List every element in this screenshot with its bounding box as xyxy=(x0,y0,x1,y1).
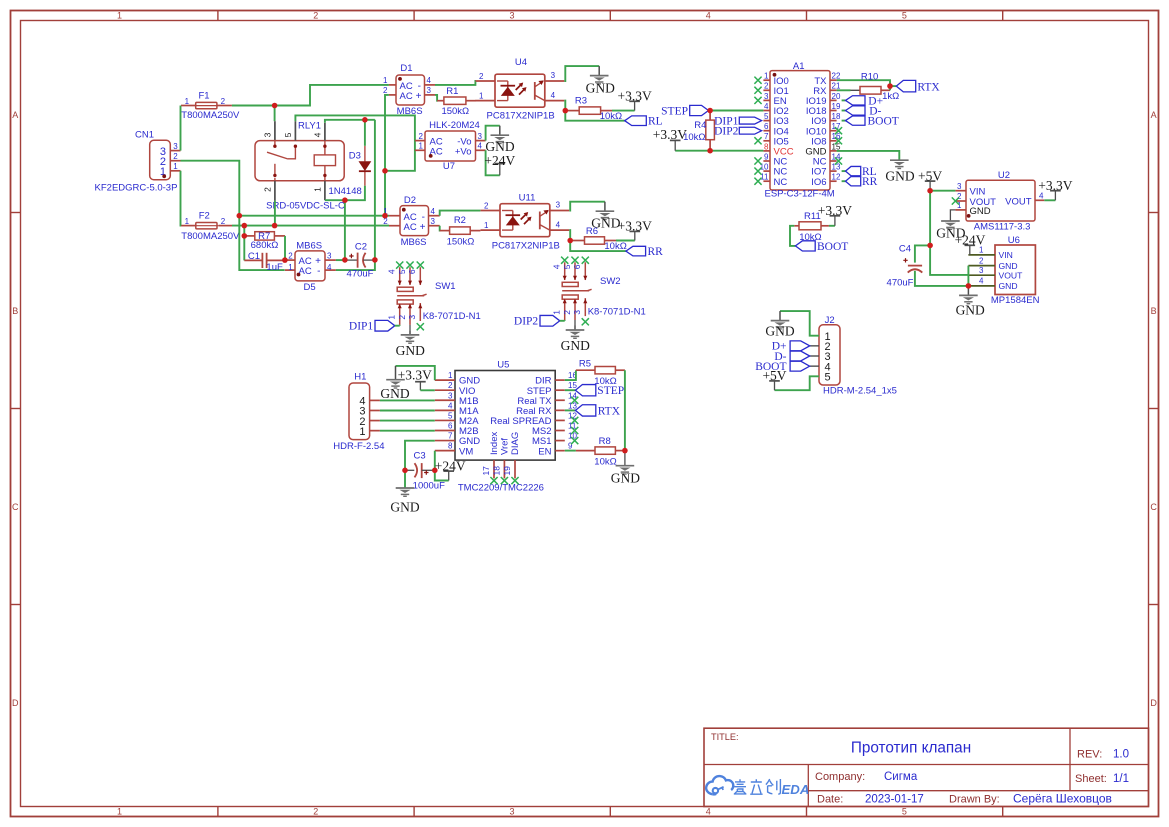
svg-text:PC817X2NIP1B: PC817X2NIP1B xyxy=(492,240,560,251)
svg-text:HDR-M-2.54_1x5: HDR-M-2.54_1x5 xyxy=(823,386,897,397)
svg-text:3: 3 xyxy=(478,132,483,141)
ground at U7 -Vo xyxy=(491,126,510,144)
svg-text:8: 8 xyxy=(448,442,453,451)
svg-text:19: 19 xyxy=(502,466,512,476)
svg-text:+24V: +24V xyxy=(955,233,986,248)
regulator U6 MP1584EN xyxy=(995,245,1035,295)
wire F1 to junction and D1 pin1 xyxy=(232,85,389,106)
svg-text:U6: U6 xyxy=(1008,235,1020,246)
wire H1.3 to U5 M1A xyxy=(380,410,435,412)
svg-text:Company:: Company: xyxy=(815,771,865,783)
junction C4 branch xyxy=(927,243,933,249)
svg-text:470uF: 470uF xyxy=(887,277,914,288)
wire A1 GND pin15 to ground xyxy=(837,151,900,160)
wire D3 cathode to coil+ node xyxy=(345,186,365,200)
svg-text:5: 5 xyxy=(283,132,293,137)
svg-text:GND: GND xyxy=(970,206,991,217)
svg-text:EDA: EDA xyxy=(782,782,810,797)
svg-text:PC817X2NIP1B: PC817X2NIP1B xyxy=(487,110,555,121)
svg-text:R6: R6 xyxy=(586,226,598,237)
no-connect marks U5 right pins xyxy=(571,397,578,404)
wire U7.4 to +24V xyxy=(486,150,500,175)
svg-text:D5: D5 xyxy=(304,282,316,293)
svg-text:SW1: SW1 xyxy=(435,281,456,292)
svg-text:SRD-05VDC-SL-C: SRD-05VDC-SL-C xyxy=(266,201,345,212)
svg-text:A1: A1 xyxy=(793,61,805,72)
svg-text:20: 20 xyxy=(832,92,841,101)
junction R6 tap xyxy=(567,238,573,244)
wire CN1.1 down to F2 xyxy=(180,171,183,226)
svg-text:2: 2 xyxy=(562,310,572,315)
svg-text:2: 2 xyxy=(448,381,453,390)
wire AC2 down through R7 to C1 xyxy=(243,226,245,261)
net flag DIP2 at A1.IO4 xyxy=(739,127,761,134)
svg-text:GND: GND xyxy=(396,343,425,358)
svg-text:B: B xyxy=(1151,306,1157,316)
connector CN1 xyxy=(150,140,171,179)
svg-text:D: D xyxy=(1150,698,1157,708)
wire U7.3 to GND xyxy=(486,126,500,141)
net flag DIP1 at A1.IO3 xyxy=(739,117,761,124)
wire SW2 pin1 to flag xyxy=(560,320,565,322)
no-connect marks A1 left pins xyxy=(754,77,761,84)
power flag +5V at J2 xyxy=(769,381,780,390)
svg-text:GND: GND xyxy=(390,499,419,514)
svg-text:GND: GND xyxy=(586,80,615,95)
svg-text:2023-01-17: 2023-01-17 xyxy=(865,794,924,806)
svg-text:3: 3 xyxy=(509,807,514,817)
svg-text:AMS1117-3.3: AMS1117-3.3 xyxy=(974,222,1031,233)
wire R11 left down to BOOT flag xyxy=(790,226,795,246)
svg-text:2: 2 xyxy=(419,132,424,141)
ground at SW1 xyxy=(401,330,420,343)
power flag +24V at U6 VIN xyxy=(965,245,976,255)
optocoupler U11 PC817X2NIP1B xyxy=(481,204,570,237)
svg-text:K8-7071D-N1: K8-7071D-N1 xyxy=(423,311,481,322)
svg-text:2: 2 xyxy=(221,97,226,106)
svg-text:TITLE:: TITLE: xyxy=(711,732,739,742)
svg-text:4: 4 xyxy=(448,401,453,410)
ground at J2 pin1 xyxy=(771,311,790,329)
svg-text:MP1584EN: MP1584EN xyxy=(991,295,1040,306)
svg-text:ESP-C3-12F-4M: ESP-C3-12F-4M xyxy=(764,188,834,199)
wire STEP to A1 pin4 xyxy=(709,110,764,112)
relay RLY1 SRD-05VDC-SL-C xyxy=(255,141,344,181)
svg-text:U2: U2 xyxy=(998,170,1010,181)
svg-text:U7: U7 xyxy=(443,161,455,172)
bridge rectifier D5 MB6S xyxy=(295,251,325,281)
JLC EDA logo cloud xyxy=(706,776,733,794)
svg-text:+5V: +5V xyxy=(918,168,942,183)
power flag +3.3V at A1 VCC xyxy=(670,140,681,150)
net flag STEP at A1.IO2 xyxy=(690,105,709,115)
svg-text:A: A xyxy=(1151,110,1157,120)
svg-text:21: 21 xyxy=(832,82,841,91)
ground at C3 xyxy=(396,488,415,496)
svg-text:1kΩ: 1kΩ xyxy=(882,91,899,102)
svg-text:17: 17 xyxy=(481,466,491,476)
capacitor C4 470uF xyxy=(915,245,930,262)
svg-text:DIAG: DIAG xyxy=(510,432,521,455)
junction U7 branch on AC1 vertical xyxy=(382,168,388,174)
svg-text:7: 7 xyxy=(764,132,769,141)
svg-text:R2: R2 xyxy=(454,215,466,226)
net flag D- at J2 xyxy=(790,351,810,361)
power flag +24V at U5 VM xyxy=(443,471,454,480)
power flag +24V at U7 xyxy=(495,164,506,176)
svg-text:2: 2 xyxy=(479,72,484,81)
svg-text:R4: R4 xyxy=(694,120,706,131)
junction C2 positive xyxy=(342,257,348,263)
net flag RR xyxy=(626,246,646,256)
wire SW1 pin1 to flag xyxy=(395,325,400,327)
svg-text:VOUT: VOUT xyxy=(999,270,1024,280)
svg-text:1: 1 xyxy=(552,310,562,315)
junction R7 left xyxy=(242,233,248,239)
resistor R10 1k xyxy=(860,87,881,95)
svg-text:GND: GND xyxy=(885,168,914,183)
bridge rectifier D2 MB6S xyxy=(400,206,429,236)
connector J2 HDR-M-2.54_1x5 xyxy=(819,325,840,385)
svg-text:1: 1 xyxy=(313,187,323,192)
wire U5 GND pin7 to C3 xyxy=(405,441,435,471)
svg-text:1: 1 xyxy=(359,426,365,438)
resistor R11 10k xyxy=(794,225,799,227)
svg-text:1: 1 xyxy=(419,142,424,151)
svg-text:1N4148: 1N4148 xyxy=(329,186,362,197)
no-connect marks U5 bottom pins xyxy=(490,477,497,484)
wire U5 VM down to +24V xyxy=(435,451,449,481)
svg-text:3: 3 xyxy=(572,310,582,315)
svg-text:3: 3 xyxy=(556,201,561,210)
svg-text:RLY1: RLY1 xyxy=(298,121,321,132)
title block outline xyxy=(704,728,1149,806)
svg-text:D3: D3 xyxy=(349,150,361,161)
svg-text:DIP2: DIP2 xyxy=(714,125,739,137)
wire H1.2 to U5 M2A xyxy=(380,420,435,422)
svg-text:3: 3 xyxy=(173,142,178,151)
svg-text:2: 2 xyxy=(764,82,769,91)
svg-text:5: 5 xyxy=(902,807,907,817)
wire H1.1 to U5 M2B xyxy=(380,430,435,432)
wire D2.4 to U11 pin2 xyxy=(440,211,481,216)
power flag +3.3V at R11 xyxy=(830,216,841,226)
wire U5 GND pin1 to ground xyxy=(396,366,435,380)
wire A1 TX to RTX xyxy=(837,80,890,86)
switch SW2 K8-7071D-N1 xyxy=(562,262,591,320)
wire CN1.3 to F1 xyxy=(180,106,182,151)
svg-text:+3.3V: +3.3V xyxy=(398,368,432,383)
svg-text:2: 2 xyxy=(288,251,293,260)
ground at SW2 xyxy=(566,326,585,339)
svg-text:AC: AC xyxy=(404,222,417,233)
wire D5.4 to C2- xyxy=(336,260,375,270)
svg-text:STEP: STEP xyxy=(661,105,688,117)
wire J2 pin5 to +5V xyxy=(775,376,820,390)
power flag +3.3V at R3 xyxy=(629,101,640,110)
svg-text:2: 2 xyxy=(957,192,962,201)
svg-text:RR: RR xyxy=(648,246,664,258)
svg-text:AC: AC xyxy=(400,91,413,102)
fuse F2 xyxy=(181,225,232,227)
svg-text:6: 6 xyxy=(572,264,582,269)
svg-text:4: 4 xyxy=(764,102,769,111)
net flag DIP2 xyxy=(540,315,560,326)
svg-text:2: 2 xyxy=(221,217,226,226)
svg-text:Drawn By:: Drawn By: xyxy=(949,794,1000,806)
svg-text:4: 4 xyxy=(387,269,397,274)
wire R7 right down to C1 right xyxy=(284,236,286,261)
connector H1 HDR-F-2.54 xyxy=(349,383,370,440)
svg-text:150kΩ: 150kΩ xyxy=(447,236,475,247)
wire D2.3 jog to R2 xyxy=(439,226,442,231)
svg-text:1: 1 xyxy=(764,72,769,81)
resistor R3 10k xyxy=(565,110,579,112)
svg-text:MB6S: MB6S xyxy=(401,237,427,248)
svg-text:2: 2 xyxy=(313,807,318,817)
wire A1 RX to R10 xyxy=(837,89,851,91)
svg-text:MB6S: MB6S xyxy=(397,106,423,117)
svg-text:H1: H1 xyxy=(354,372,366,383)
svg-text:BOOT: BOOT xyxy=(868,116,899,128)
svg-text:5: 5 xyxy=(448,411,453,420)
ground at R8 xyxy=(616,466,635,474)
resistor R5 10k xyxy=(576,369,595,371)
svg-text:2: 2 xyxy=(979,256,984,265)
stepper driver U5 TMC2209/TMC2226 xyxy=(455,371,555,461)
junction C3 right xyxy=(432,468,438,474)
wire D1.4 to U4 pin2 xyxy=(435,81,476,85)
svg-text:+3.3V: +3.3V xyxy=(617,89,651,104)
svg-text:GND: GND xyxy=(999,261,1018,271)
svg-text:GND: GND xyxy=(611,470,640,485)
svg-text:EN: EN xyxy=(538,446,551,457)
svg-text:KF2EDGRC-5.0-3P: KF2EDGRC-5.0-3P xyxy=(95,182,178,193)
svg-text:F2: F2 xyxy=(199,211,210,222)
wire H1.4 to U5 M1B xyxy=(380,399,435,401)
wire D5.3 to C2+ xyxy=(336,259,345,261)
svg-text:+24V: +24V xyxy=(484,153,515,168)
JLC EDA logo CJK text li xyxy=(750,779,762,794)
svg-text:4: 4 xyxy=(556,220,561,229)
svg-text:7: 7 xyxy=(448,432,453,441)
svg-text:IO6: IO6 xyxy=(811,177,826,188)
junction +5V node xyxy=(927,188,933,194)
svg-text:1: 1 xyxy=(383,76,388,85)
resistor R4 10k xyxy=(709,111,711,121)
svg-text:NC: NC xyxy=(774,177,788,188)
svg-text:5: 5 xyxy=(902,11,907,21)
svg-text:D2: D2 xyxy=(404,195,416,206)
junction R8 right xyxy=(622,448,628,454)
svg-text:3: 3 xyxy=(957,182,962,191)
svg-text:+Vo: +Vo xyxy=(455,146,472,157)
svg-text:1: 1 xyxy=(387,315,397,320)
svg-text:10kΩ: 10kΩ xyxy=(600,111,622,122)
svg-text:T800MA250V: T800MA250V xyxy=(181,110,240,121)
wire U5 EN to R8 xyxy=(565,450,576,452)
svg-text:C: C xyxy=(1150,502,1157,512)
junction C3 left xyxy=(402,468,408,474)
svg-text:2: 2 xyxy=(383,86,388,95)
svg-text:1000uF: 1000uF xyxy=(413,480,445,491)
wire U2 VOUT to +3.3V xyxy=(1044,199,1055,201)
junction coil+ / D3 cathode xyxy=(342,197,348,203)
svg-text:K8-7071D-N1: K8-7071D-N1 xyxy=(588,306,646,317)
wire R10 to RTX junction xyxy=(889,86,891,90)
svg-text:+3.3V: +3.3V xyxy=(818,203,852,218)
svg-text:4: 4 xyxy=(327,263,332,272)
resistor R2 150k xyxy=(440,230,450,232)
capacitor C1 1uF xyxy=(244,259,262,261)
svg-text:3: 3 xyxy=(263,132,273,137)
svg-text:3: 3 xyxy=(427,86,432,95)
wire RLY1.4 up and right to D3 anode xyxy=(325,120,375,123)
svg-text:1: 1 xyxy=(117,11,122,21)
svg-text:DIP1: DIP1 xyxy=(349,321,374,333)
resistor R6 10k xyxy=(570,240,584,242)
svg-text:Сигма: Сигма xyxy=(884,771,918,783)
svg-text:2: 2 xyxy=(263,187,273,192)
svg-text:5: 5 xyxy=(764,112,769,121)
svg-text:3: 3 xyxy=(979,266,984,275)
svg-text:AC: AC xyxy=(299,266,312,277)
svg-text:B: B xyxy=(12,306,18,316)
svg-text:5: 5 xyxy=(825,372,831,384)
svg-text:4: 4 xyxy=(431,207,436,216)
svg-text:REV:: REV: xyxy=(1077,749,1102,761)
diode D3 1N4148 xyxy=(364,146,366,186)
net flag D+ at A1.IO19 xyxy=(842,99,846,101)
svg-text:T800MA250V: T800MA250V xyxy=(181,231,240,242)
svg-text:2: 2 xyxy=(484,201,489,210)
svg-text:1: 1 xyxy=(484,221,489,230)
resistor R7 680k xyxy=(244,235,255,237)
svg-text:R3: R3 xyxy=(575,95,587,106)
svg-text:4: 4 xyxy=(551,91,556,100)
svg-text:GND: GND xyxy=(561,338,590,353)
junction AC2 relay pin2 branch xyxy=(272,223,278,229)
svg-text:3: 3 xyxy=(327,251,332,260)
junction C2 negative xyxy=(372,257,378,263)
svg-text:Серёга Шеховцов: Серёга Шеховцов xyxy=(1013,792,1112,806)
svg-text:1: 1 xyxy=(185,217,190,226)
svg-text:R10: R10 xyxy=(861,71,878,82)
junction snubber to D5.2 xyxy=(282,257,288,263)
wire D3 anode lead xyxy=(364,120,366,146)
svg-text:+5V: +5V xyxy=(762,368,786,383)
svg-text:+3.3V: +3.3V xyxy=(1038,178,1072,193)
svg-text:3: 3 xyxy=(551,71,556,80)
capacitor C2 470uF xyxy=(345,259,358,261)
svg-text:HDR-F-2.54: HDR-F-2.54 xyxy=(333,441,384,452)
ground at U6 xyxy=(959,286,978,304)
net flag RL at A1.IO7 xyxy=(842,170,846,172)
svg-text:F1: F1 xyxy=(198,90,209,101)
svg-text:6: 6 xyxy=(448,422,453,431)
svg-text:2: 2 xyxy=(173,152,178,161)
wire RLY1.2 down to AC2 rail xyxy=(274,201,276,226)
junction U6 ground node xyxy=(966,283,972,289)
no-connect marks A1 right pins xyxy=(835,127,842,134)
svg-text:19: 19 xyxy=(832,102,841,111)
wire U6 GND pin2 down to pin4 node xyxy=(967,266,969,286)
resistor R1 150k xyxy=(437,100,444,102)
svg-text:R1: R1 xyxy=(446,86,458,97)
ground at U11 pin3 xyxy=(596,202,615,220)
svg-text:C2: C2 xyxy=(355,241,367,252)
power flag +3.3V at R6 xyxy=(630,231,641,240)
svg-text:VM: VM xyxy=(459,446,473,457)
svg-text:RR: RR xyxy=(862,176,878,188)
wire junction down to RLY1 pin 3 xyxy=(274,106,276,122)
junction fused AC1 xyxy=(272,103,278,109)
wire U4.3 to GND xyxy=(564,66,599,81)
svg-text:4: 4 xyxy=(706,11,711,21)
svg-text:1: 1 xyxy=(479,91,484,100)
wire U11.4 down to RR xyxy=(569,230,626,251)
svg-text:A: A xyxy=(12,110,18,120)
svg-text:1: 1 xyxy=(288,263,293,272)
svg-text:6: 6 xyxy=(764,122,769,131)
svg-text:470uF: 470uF xyxy=(347,269,374,280)
relay pins xyxy=(275,121,325,200)
power flag +3.3V at U2 output xyxy=(1050,191,1061,201)
no-connect marks SW1 top pins xyxy=(396,262,403,269)
net flag BOOT at A1.IO9 xyxy=(842,120,846,122)
junction RTX xyxy=(887,83,893,89)
svg-text:D1: D1 xyxy=(400,63,412,74)
svg-text:1.0: 1.0 xyxy=(1113,749,1129,761)
svg-text:1uF: 1uF xyxy=(266,262,283,273)
no-connect mark U2 pin2 xyxy=(952,197,959,204)
net flag RR at A1.IO6 xyxy=(842,180,846,182)
net flag D- at A1.IO18 xyxy=(842,110,846,112)
svg-text:10kΩ: 10kΩ xyxy=(604,241,626,252)
ground at A1 pin15 xyxy=(890,160,909,168)
wire J2 pin1 to ground xyxy=(780,311,819,336)
svg-text:U11: U11 xyxy=(519,192,536,203)
svg-text:Index: Index xyxy=(489,432,500,455)
svg-text:+: + xyxy=(416,91,422,102)
net flag STEP at U5 xyxy=(565,389,576,391)
svg-text:+3.3V: +3.3V xyxy=(653,127,687,142)
svg-text:3: 3 xyxy=(407,315,417,320)
junction R3 tap xyxy=(563,108,569,114)
svg-text:STEP: STEP xyxy=(597,385,624,397)
junction AC1 and D1.2 vertical xyxy=(382,213,388,219)
svg-text:SW2: SW2 xyxy=(600,276,621,287)
wire D3 anode net down to C2 negative xyxy=(374,120,376,260)
MCU module A1 ESP-C3-12F-4M xyxy=(770,71,830,190)
regulator U2 AMS1117-3.3 xyxy=(966,180,1035,221)
svg-text:C1: C1 xyxy=(248,251,260,262)
svg-text:MB6S: MB6S xyxy=(296,240,322,251)
svg-text:U5: U5 xyxy=(497,360,509,371)
power flag +3.3V at U5 VIO xyxy=(415,382,426,391)
wire +3.3V rail to A1 VCC xyxy=(675,150,763,152)
svg-text:3: 3 xyxy=(764,92,769,101)
svg-text:RTX: RTX xyxy=(598,405,621,417)
wire CN1.2 to AC1 rail and D5 pin1 xyxy=(181,161,285,270)
svg-text:1: 1 xyxy=(185,97,190,106)
svg-text:Прототип клапан: Прототип клапан xyxy=(851,739,971,756)
svg-text:GND: GND xyxy=(999,281,1018,291)
wire R11 right to +3.3V xyxy=(829,225,835,227)
wire D1.3 jog to R1 xyxy=(435,95,438,101)
wire +5V rail down to U6 VOUT xyxy=(930,191,968,275)
net flag BOOT at R11 xyxy=(795,241,815,251)
